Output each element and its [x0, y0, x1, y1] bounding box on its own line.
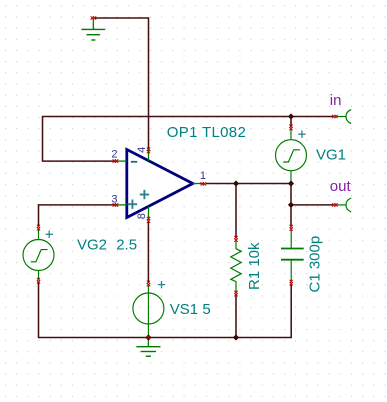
node out connector [335, 198, 351, 212]
svg-text:2: 2 [111, 148, 117, 160]
wire node in rail [42, 116, 334, 118]
terminal x pin2 [113, 159, 119, 162]
voltage source VS1 [133, 286, 164, 338]
wire R1 bottom vertical [235, 295, 237, 337]
terminal x C1 bottom [290, 280, 293, 286]
svg-text:1: 1 [200, 170, 206, 182]
voltage generator VG2 [23, 229, 54, 279]
terminal x node out [332, 203, 337, 206]
svg-text:4: 4 [136, 147, 148, 153]
terminal x R1 top [234, 236, 237, 242]
wire top ground to pin4 vertical [148, 17, 150, 149]
wire bottom rail [39, 337, 292, 339]
svg-text:VG2: VG2 [77, 236, 107, 253]
VG1 plus polarity mark [298, 131, 305, 138]
VS1 plus polarity mark [158, 281, 165, 288]
junction R1 top on output wire [233, 180, 239, 186]
terminal x VG2 bottom [37, 278, 40, 284]
terminal x pin8 [147, 217, 150, 223]
wire top ground to pin4 horizontal [94, 17, 148, 19]
wire C1 bottom vertical [290, 284, 292, 338]
svg-text:OP1 TL082: OP1 TL082 [167, 124, 246, 141]
ground bottom [136, 338, 160, 357]
wire VG2 top vertical [38, 204, 40, 226]
terminal x C1 top [290, 225, 293, 231]
svg-text:C1 300p: C1 300p [307, 236, 324, 293]
wire VG1 bottom to C1 top [290, 184, 292, 227]
terminal x VG2 top [37, 225, 40, 231]
wire feedback left vertical [42, 117, 44, 162]
VG2 plus polarity mark [46, 231, 53, 238]
terminal x VG1 top [289, 125, 292, 131]
terminal x node in [332, 115, 337, 118]
terminal x pin1 [201, 182, 207, 185]
svg-text:8: 8 [136, 213, 148, 219]
op-amp OP1 triangle [127, 150, 193, 218]
terminal x ground top [91, 16, 97, 19]
svg-text:in: in [330, 92, 342, 109]
wire pin3 horizontal [39, 204, 115, 206]
junction VG1 bottom on output wire [288, 180, 294, 186]
op-amp non-inverting input plus mark [128, 200, 137, 209]
wire R1 top vertical [235, 184, 237, 238]
pin 4 stub [148, 150, 150, 162]
wire VG1 top stem [290, 117, 292, 127]
junction VS1 ground bottom rail [145, 334, 151, 340]
wire node out branch [291, 204, 334, 206]
terminal x pin4 [147, 148, 150, 154]
wire pin1 output node [206, 183, 291, 185]
pin 2 stub [114, 160, 127, 162]
pin 3 stub [114, 204, 127, 206]
resistor R1 [231, 241, 241, 292]
wire pin2 to feedback corner [43, 160, 115, 162]
svg-text:2.5: 2.5 [116, 236, 137, 253]
pin 1 stub [193, 183, 204, 185]
ground top [81, 19, 105, 41]
terminal x VS1 bottom junction [147, 336, 150, 339]
node in connector [335, 110, 351, 124]
terminal x pin3 [113, 203, 119, 206]
svg-text:VS1 5: VS1 5 [170, 301, 211, 318]
svg-text:3: 3 [111, 194, 117, 206]
junction R1 bottom rail [233, 334, 239, 340]
capacitor C1 [281, 230, 304, 281]
junction out branch [288, 202, 294, 208]
wire VG2 bottom vertical [38, 282, 40, 338]
terminal x VS1 top [147, 281, 150, 287]
pin 8 stub [148, 206, 150, 220]
wire pin8 to VS1 [147, 221, 149, 282]
op-amp inverting input minus mark [131, 161, 137, 163]
terminal x R1 bottom [234, 291, 237, 297]
svg-text:R1 10k: R1 10k [246, 242, 263, 290]
voltage generator VG1 [276, 129, 307, 184]
svg-text:VG1: VG1 [316, 147, 346, 164]
junction VG1 top on in rail [288, 113, 294, 119]
svg-text:out: out [330, 178, 352, 195]
op-amp center plus mark [140, 190, 149, 199]
